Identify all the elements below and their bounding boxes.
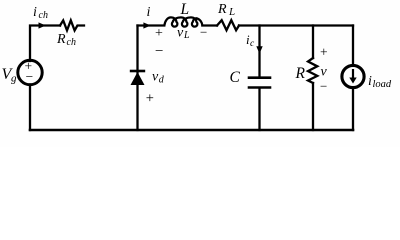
wire: R branch upper [312, 26, 314, 59]
svg-text:i: i [33, 5, 37, 20]
wire: capacitor branch upper [258, 26, 260, 78]
svg-text:+: + [320, 44, 328, 59]
wire: Vg bottom down to rail [29, 85, 31, 131]
svg-text:L: L [228, 6, 235, 18]
wire: bottom rail [30, 129, 353, 132]
svg-text:−: − [26, 69, 34, 84]
svg-text:c: c [250, 39, 255, 49]
svg-text:−: − [320, 79, 327, 94]
svg-text:d: d [159, 75, 165, 86]
svg-text:i: i [368, 74, 372, 89]
diode cathode bar [130, 70, 145, 73]
wire: between L and RL [202, 24, 217, 26]
resistor RL [217, 20, 239, 30]
diode D [131, 72, 145, 85]
wire: top rail [138, 24, 165, 26]
svg-text:C: C [230, 69, 241, 86]
wire: diode branch vertical [136, 26, 138, 131]
wire: iload branch lower [352, 88, 354, 131]
resistor R vertical [308, 58, 317, 83]
svg-text:L: L [183, 30, 190, 41]
svg-text:−: − [155, 43, 163, 59]
svg-text:ch: ch [39, 10, 48, 21]
svg-text:+: + [146, 90, 154, 106]
arrow: i_c current [256, 46, 262, 54]
wire: left loop top from Vg up and right [30, 26, 60, 62]
svg-text:v: v [177, 26, 184, 41]
svg-text:R: R [295, 65, 306, 82]
svg-text:R: R [217, 2, 227, 17]
inductor L [164, 17, 202, 26]
svg-text:ch: ch [67, 37, 76, 48]
arrow: i_ch current [39, 22, 46, 28]
wire: top rail RL to right end [239, 24, 353, 26]
arrow: i current [143, 22, 150, 28]
svg-text:g: g [11, 73, 17, 85]
svg-text:load: load [373, 79, 392, 90]
svg-text:L: L [180, 1, 190, 18]
capacitor C plates [249, 78, 270, 88]
resistor Rch [60, 20, 84, 30]
arrow inside iload: shaft + head [352, 69, 354, 79]
wire: R branch lower [312, 83, 314, 130]
svg-text:−: − [200, 25, 207, 40]
svg-text:v: v [321, 65, 328, 80]
voltage source Vg [18, 60, 42, 84]
svg-text:+: + [155, 26, 163, 41]
wire: iload branch upper [352, 26, 354, 66]
svg-text:R: R [56, 32, 66, 47]
current source iload circle [342, 65, 364, 87]
wire: capacitor branch lower [258, 88, 260, 130]
svg-text:i: i [147, 5, 151, 20]
